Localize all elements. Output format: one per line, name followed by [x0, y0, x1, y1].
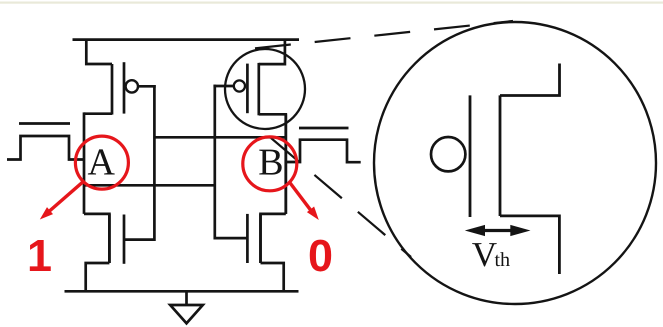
wire VDD drop to M1 source stub [86, 40, 112, 64]
wire M3 gate to right gate net [213, 85, 233, 88]
wire GND rail [65, 290, 299, 293]
top slide border line [0, 2, 663, 4]
transistor M2 gate [123, 215, 126, 264]
enlarged PMOS gate [469, 95, 472, 217]
wire M4 gate to right gate net [215, 237, 248, 240]
transistor M3 gate [246, 64, 249, 114]
dashed pointer upper tangent [255, 21, 513, 48]
wire cross-couple node A to right gates [84, 184, 215, 187]
wire M1 gate to left gate net [138, 85, 156, 88]
Vth double-headed arrow [465, 225, 531, 236]
enlarged PMOS source arm [500, 64, 560, 96]
transistor M2 source stub [86, 263, 110, 291]
node B wire [284, 114, 287, 214]
transistor M3 gate bubble [234, 80, 245, 91]
balloon big circle [374, 22, 656, 304]
label 1 (stored value at A) [30, 240, 51, 271]
transistor M1 drain stub [84, 112, 112, 115]
transistor M4 channel [259, 214, 262, 263]
pass transistor P2 channel and terminals [286, 140, 361, 163]
node B red circle [243, 137, 297, 191]
balloon small circle over M3 [225, 49, 305, 129]
ground symbol [170, 291, 203, 323]
label 0 (stored value at B) [310, 240, 331, 272]
transistor M3 drain arm [259, 114, 286, 214]
transistor M3 (right PMOS) source arm from VDD [259, 40, 285, 65]
transistor M1 (left PMOS) channel [111, 64, 114, 115]
wire right gate vertical net [213, 85, 216, 240]
label node A [88, 149, 115, 174]
transistor M4 (right NMOS) drain stub [261, 214, 286, 263]
transistor M4 source stub [261, 263, 284, 291]
node A wire [83, 112, 86, 214]
red arrow from A to label 1 [40, 182, 83, 220]
transistor M1 gate bubble [126, 80, 138, 92]
enlarged PMOS channel [499, 95, 502, 216]
transistor M1 gate [123, 62, 126, 113]
wire VDD rail [73, 38, 300, 41]
transistor M3 channel [257, 63, 260, 115]
pass transistor P2 (right access) gate bar [299, 127, 349, 130]
red arrow from B to label 0 [289, 182, 319, 221]
wire cross-couple node B to left gates [154, 136, 285, 139]
wire left gate vertical net [153, 85, 156, 241]
dashed pointer lower tangent [271, 138, 411, 257]
pass transistor P1 (left access) gate bar [19, 122, 70, 125]
transistor M2 (left NMOS) drain stub [84, 214, 109, 263]
transistor M2 channel [108, 214, 111, 263]
transistor M4 gate [246, 214, 249, 263]
pass transistor P1 channel and terminals [7, 136, 84, 160]
enlarged PMOS drain arm [500, 216, 559, 274]
label node B [259, 150, 281, 175]
wire M2 gate to left gate net [124, 238, 154, 241]
label Vth [472, 243, 496, 266]
node A red circle [75, 136, 128, 189]
enlarged PMOS gate bubble [431, 137, 465, 171]
